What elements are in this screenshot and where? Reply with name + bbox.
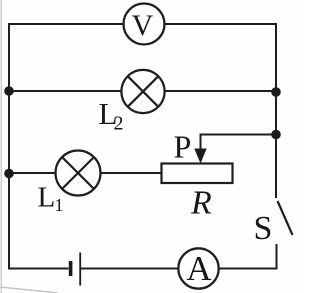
- wire left bus: [8, 24, 10, 269]
- node junction right upper: [271, 87, 281, 97]
- svg-text:P: P: [174, 129, 192, 165]
- battery negative plate: [69, 261, 73, 276]
- wire right bus: [275, 24, 277, 197]
- wire battery to ammeter: [82, 268, 179, 270]
- wire top right segment: [165, 23, 277, 25]
- battery positive plate: [79, 253, 81, 286]
- svg-text:1: 1: [55, 195, 64, 215]
- svg-text:V: V: [132, 9, 154, 42]
- svg-text:R: R: [190, 185, 212, 222]
- wire switch lower stub: [276, 245, 278, 269]
- wire L1 to rheostat: [101, 172, 162, 174]
- node junction right lower: [271, 130, 281, 140]
- wire slider elbow: [201, 135, 277, 151]
- scan edge artifact left: [0, 0, 2, 293]
- wire ammeter to right corner: [219, 268, 277, 270]
- ammeter A: [178, 248, 218, 288]
- node junction left lower: [4, 169, 14, 179]
- switch blade: [278, 201, 293, 235]
- svg-text:A: A: [186, 249, 212, 288]
- wire L2 branch left: [9, 90, 122, 92]
- wire L1 branch left: [9, 172, 56, 174]
- svg-text:2: 2: [114, 113, 124, 135]
- svg-text:L: L: [38, 182, 56, 214]
- rheostat slider arrowhead: [194, 149, 206, 164]
- lamp L1: [56, 151, 101, 196]
- svg-text:S: S: [254, 210, 273, 247]
- voltmeter V: [124, 4, 165, 45]
- wire bottom left to battery: [9, 268, 68, 270]
- wire top left segment: [9, 23, 124, 25]
- node junction left upper: [4, 86, 14, 96]
- rheostat R body: [162, 164, 233, 184]
- lamp L2: [121, 70, 164, 113]
- wire L2 branch right: [165, 90, 277, 92]
- scan streak bottom-left: [0, 287, 58, 293]
